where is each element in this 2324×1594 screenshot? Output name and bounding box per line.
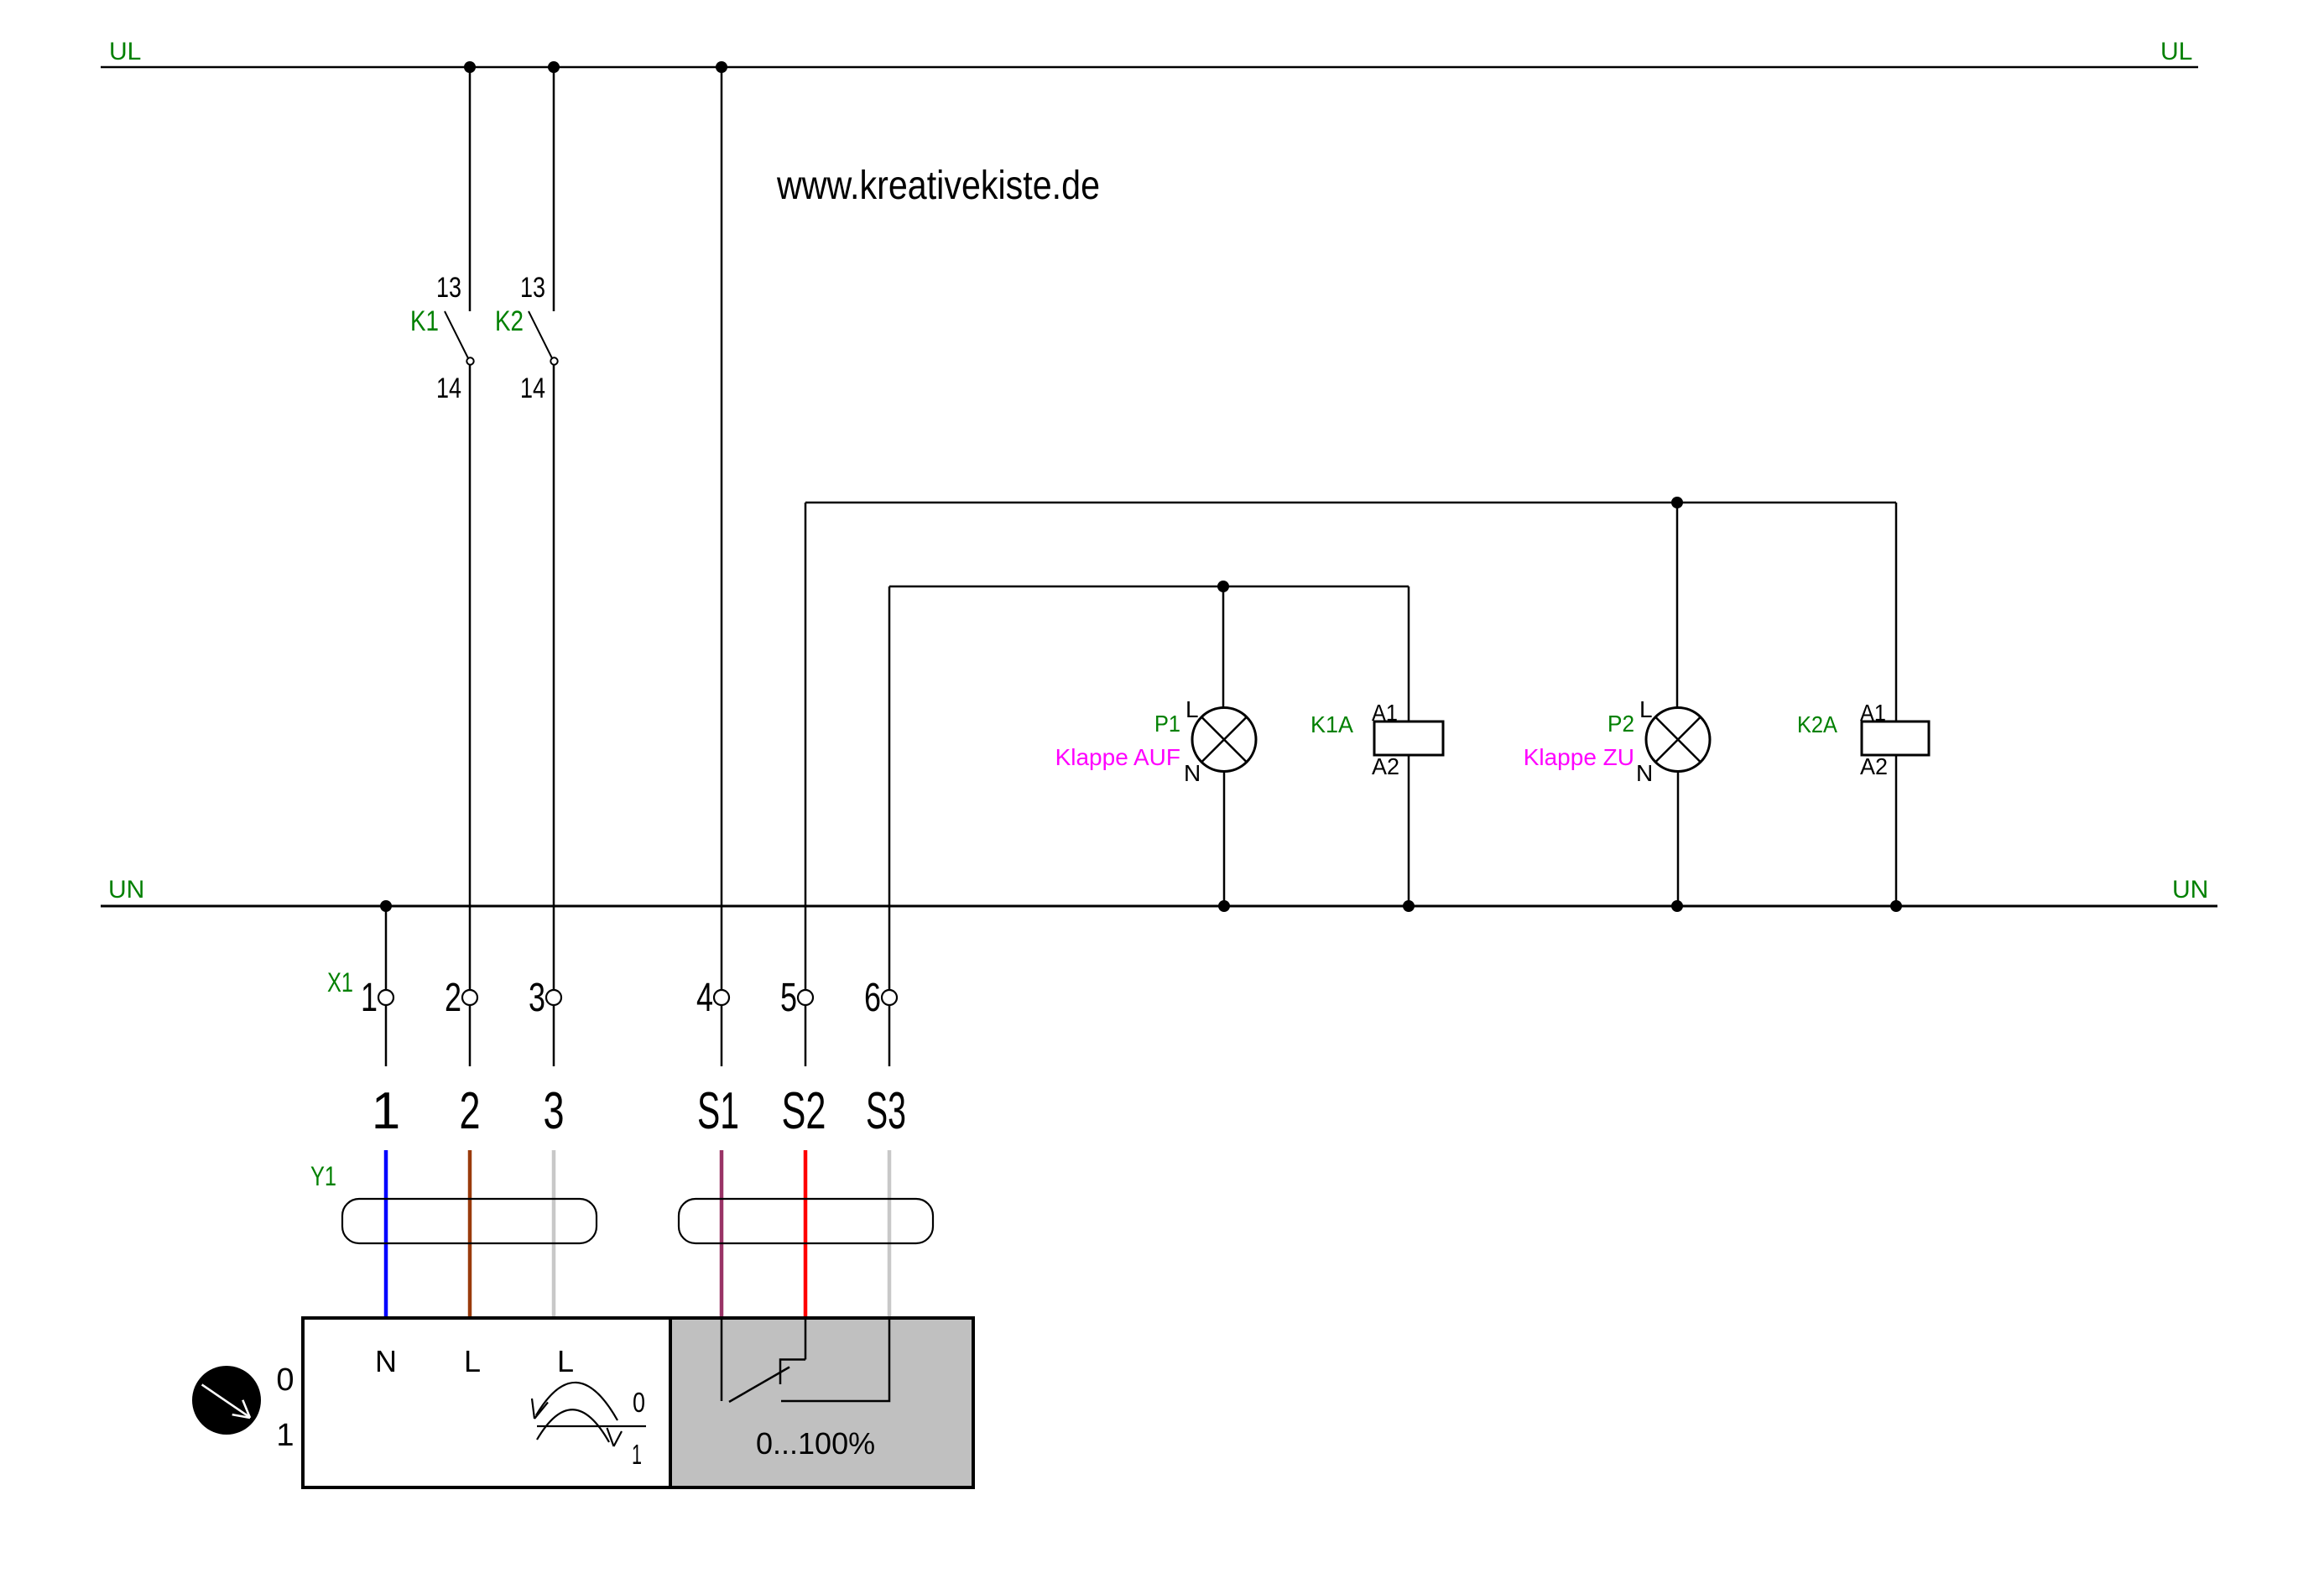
junction S2 run at P2: [1671, 497, 1683, 508]
terminal X1-4: [714, 990, 729, 1005]
svg-text:13: 13: [436, 272, 461, 304]
svg-text:0: 0: [633, 1387, 645, 1418]
svg-text:1: 1: [632, 1439, 642, 1470]
junction on UL at S1: [716, 61, 727, 73]
stub below terminal 4: [721, 1005, 723, 1066]
junction UN at terminal 1: [380, 900, 392, 912]
svg-text:5: 5: [780, 976, 797, 1020]
wire violet S1: [720, 1150, 724, 1321]
terminal X1-3: [546, 990, 561, 1005]
svg-text:A1: A1: [1860, 700, 1886, 726]
wire UL to contact K2: [553, 67, 555, 311]
rotary knob: [192, 1366, 261, 1435]
svg-text:2: 2: [460, 1082, 481, 1140]
svg-text:N: N: [1636, 760, 1653, 786]
junction UN at K1A: [1403, 900, 1415, 912]
wire S3 run down to coil K1A: [1408, 586, 1410, 721]
coil K2A: [1862, 721, 1929, 755]
wire contact K2 to terminal 3: [553, 365, 555, 990]
actuator box Y1 (grey section): [670, 1318, 973, 1487]
actuator box Y1 (white section): [303, 1318, 670, 1487]
svg-text:UN: UN: [2172, 876, 2208, 904]
coil K1A: [1374, 721, 1443, 755]
wire UN to terminal 1: [385, 906, 388, 990]
terminal X1-1: [378, 990, 393, 1005]
wire S3 horizontal run: [889, 586, 1409, 588]
wire grey L: [552, 1150, 556, 1321]
svg-text:N: N: [1184, 760, 1201, 786]
svg-text:6: 6: [864, 976, 881, 1020]
stub below terminal 6: [888, 1005, 891, 1066]
contact K1 (NO): [445, 311, 474, 365]
wire blue N: [384, 1150, 388, 1321]
spring-return symbol: [532, 1383, 646, 1446]
junction S3 run at P1: [1217, 581, 1229, 592]
svg-text:L: L: [464, 1344, 481, 1378]
lamp P2: [1646, 708, 1710, 772]
svg-text:3: 3: [544, 1082, 565, 1140]
svg-text:P1: P1: [1154, 711, 1180, 737]
junction UN at K2A: [1890, 900, 1902, 912]
terminal X1-5: [798, 990, 813, 1005]
svg-text:L: L: [557, 1344, 574, 1378]
svg-text:UN: UN: [108, 876, 144, 904]
svg-text:13: 13: [520, 272, 545, 304]
svg-text:Y1: Y1: [310, 1161, 336, 1191]
svg-text:14: 14: [520, 372, 545, 404]
svg-text:X1: X1: [327, 967, 353, 998]
cable sleeve left: [342, 1199, 597, 1243]
stub below terminal 5: [805, 1005, 807, 1066]
junction on UL at K1: [464, 61, 476, 73]
svg-text:www.kreativekiste.de: www.kreativekiste.de: [776, 164, 1100, 208]
stub below terminal 2: [469, 1005, 472, 1066]
svg-text:2: 2: [445, 976, 461, 1020]
wire P2 top: [1676, 503, 1679, 708]
switch S3 line inside box: [781, 1318, 889, 1401]
svg-text:1: 1: [276, 1418, 294, 1453]
wire P1 bottom to UN: [1223, 772, 1226, 907]
wire UL to contact K1: [469, 67, 472, 311]
svg-text:K2A: K2A: [1797, 711, 1837, 737]
switch arm: [729, 1367, 789, 1403]
svg-text:K1: K1: [410, 305, 439, 337]
contact K2 (NO): [529, 311, 558, 365]
junction on UL at K2: [548, 61, 560, 73]
terminal X1-2: [462, 990, 477, 1005]
svg-text:P2: P2: [1608, 711, 1634, 737]
wire S2 horizontal run: [805, 502, 1896, 504]
wire S2 run down to coil K2A: [1895, 503, 1898, 721]
switch S2 step: [780, 1360, 805, 1385]
svg-text:1: 1: [361, 976, 378, 1020]
svg-text:14: 14: [436, 372, 461, 404]
svg-text:A1: A1: [1372, 700, 1398, 726]
switch S2 line inside box: [805, 1318, 807, 1360]
wire contact K1 to terminal 2: [469, 365, 472, 990]
terminal X1-6: [882, 990, 897, 1005]
wire terminal 5 up (S2 riser): [805, 503, 807, 990]
svg-text:S2: S2: [782, 1082, 826, 1140]
svg-text:Klappe ZU: Klappe ZU: [1524, 744, 1634, 770]
lamp P1: [1192, 708, 1256, 772]
svg-text:L: L: [1639, 696, 1653, 722]
svg-text:3: 3: [529, 976, 545, 1020]
wire terminal 6 up (S3 riser): [888, 586, 891, 990]
svg-text:S3: S3: [866, 1082, 906, 1140]
svg-text:K1A: K1A: [1311, 711, 1353, 737]
junction UN at P1: [1218, 900, 1230, 912]
svg-text:0...100%: 0...100%: [756, 1426, 875, 1461]
svg-text:A2: A2: [1372, 753, 1399, 779]
wire coil K1A to UN: [1408, 755, 1410, 906]
svg-text:UL: UL: [2160, 38, 2192, 65]
svg-text:S1: S1: [697, 1082, 739, 1140]
stub below terminal 1: [385, 1005, 388, 1066]
junction UN at P2: [1671, 900, 1683, 912]
cable sleeve right: [679, 1199, 933, 1243]
wire coil K2A to UN: [1895, 755, 1898, 906]
wire red S2: [804, 1150, 808, 1321]
svg-text:K2: K2: [495, 305, 524, 337]
svg-text:Klappe AUF: Klappe AUF: [1055, 744, 1180, 770]
svg-text:1: 1: [372, 1082, 400, 1140]
bus UL: [101, 66, 2198, 69]
svg-text:L: L: [1185, 696, 1199, 722]
svg-text:N: N: [375, 1344, 397, 1378]
wire P2 bottom to UN: [1677, 772, 1680, 907]
wire brown L: [468, 1150, 472, 1321]
wire grey S3: [888, 1150, 892, 1321]
stub below terminal 3: [553, 1005, 555, 1066]
svg-text:0: 0: [276, 1362, 294, 1398]
wire P1 top: [1222, 586, 1225, 708]
svg-text:UL: UL: [109, 38, 141, 65]
svg-text:4: 4: [696, 976, 713, 1020]
switch S1 line inside box: [721, 1318, 723, 1401]
svg-text:A2: A2: [1860, 753, 1888, 779]
bus UN: [101, 905, 2217, 908]
wire UL to terminal 4 (S1): [721, 67, 723, 990]
